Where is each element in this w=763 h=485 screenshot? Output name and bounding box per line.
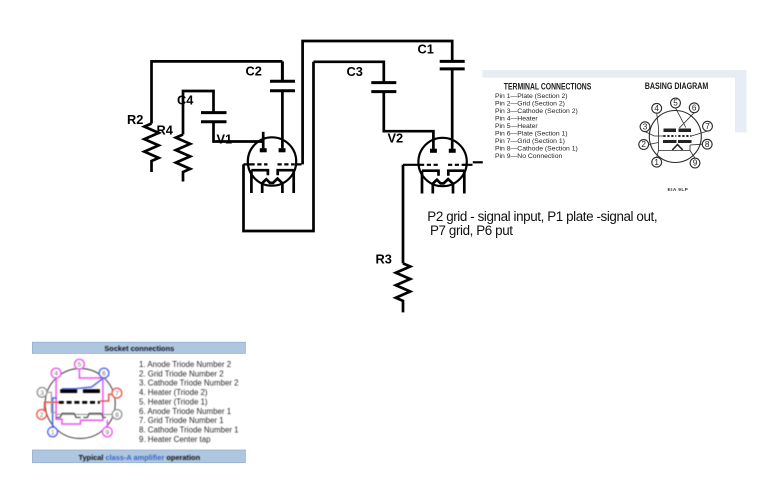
- svg-text:3: 3: [40, 390, 44, 397]
- pin 9: [103, 427, 113, 437]
- svg-text:R3: R3: [376, 251, 392, 266]
- interior grids (dotted): [663, 135, 691, 137]
- header text: [104, 344, 174, 353]
- V1 heater: [262, 179, 282, 193]
- svg-text:8: 8: [705, 140, 710, 149]
- pin numbers: [641, 99, 710, 168]
- wire: C4 bottom lead to V1 left plate: [214, 122, 264, 142]
- svg-text:Pin 7—Grid (Section 1): Pin 7—Grid (Section 1): [495, 138, 565, 145]
- panel header bar: [32, 342, 245, 353]
- svg-text:7. Grid Triode Number 1: 7. Grid Triode Number 1: [139, 416, 224, 425]
- svg-text:6. Anode Triode Number 1: 6. Anode Triode Number 1: [139, 407, 231, 416]
- V2 grid (dashed): [420, 164, 466, 166]
- triode V1 envelope: [248, 137, 296, 185]
- grid wire pin 7 (red): [100, 394, 113, 401]
- socket diagram: [37, 359, 122, 438]
- wire: V1 left plate lead: [262, 132, 265, 149]
- pin 6: [99, 368, 109, 378]
- envelope circle: [649, 111, 701, 163]
- wire: V1 grid right to top rail and across to C1: [303, 41, 453, 164]
- numbered list: [139, 360, 239, 444]
- svg-text:1: 1: [654, 158, 659, 167]
- resistor R2: [144, 124, 158, 173]
- svg-text:5: 5: [673, 99, 678, 108]
- pin 3: [37, 388, 47, 398]
- anode wire pin 6 (blue): [62, 378, 104, 389]
- svg-text:Pin 2—Grid (Section 2): Pin 2—Grid (Section 2): [495, 101, 565, 108]
- svg-text:C1: C1: [418, 42, 434, 57]
- pin 7 circle: [703, 121, 713, 131]
- pin 8 circle: [702, 139, 712, 149]
- V2 right plate bar: [449, 149, 456, 153]
- interior thin frame: [659, 128, 691, 151]
- cathode wire pin 8 (gray): [57, 413, 113, 415]
- anode wire pin 1 (blue): [53, 398, 57, 427]
- svg-text:Socket connections: Socket connections: [104, 344, 174, 353]
- basing diagram: [639, 98, 713, 168]
- svg-text:TERMINAL CONNECTIONS: TERMINAL CONNECTIONS: [504, 82, 592, 92]
- resistor R3: [396, 263, 410, 312]
- svg-text:8: 8: [115, 412, 119, 419]
- heater wire pin 9 (magenta): [106, 420, 108, 427]
- svg-text:V1: V1: [217, 132, 233, 147]
- pin 3 circle: [640, 122, 650, 132]
- heater V: [672, 145, 682, 151]
- plate bar left: [60, 389, 77, 393]
- svg-text:Pin 3—Cathode (Section 2): Pin 3—Cathode (Section 2): [495, 108, 578, 115]
- V1 left cathode: [251, 170, 268, 193]
- panel footer bar: [32, 450, 245, 463]
- wire: V2 grid left lead down to R3: [402, 165, 405, 264]
- pin 6 circle: [689, 103, 699, 113]
- capacitor C3: [371, 83, 396, 92]
- svg-text:C4: C4: [177, 93, 194, 108]
- svg-text:2. Grid Triode Number 2: 2. Grid Triode Number 2: [139, 369, 224, 378]
- svg-text:Pin 1—Plate (Section 2): Pin 1—Plate (Section 2): [495, 93, 568, 100]
- svg-text:P7 grid, P6 put: P7 grid, P6 put: [430, 223, 513, 238]
- svg-text:Pin 6—Plate (Section 1): Pin 6—Plate (Section 1): [495, 130, 568, 137]
- svg-text:V2: V2: [388, 131, 404, 146]
- heading BASING DIAGRAM: [645, 81, 709, 91]
- svg-text:Pin 9—No Connection: Pin 9—No Connection: [495, 153, 562, 160]
- svg-text:4. Heater (Triode 2): 4. Heater (Triode 2): [139, 388, 208, 397]
- svg-text:3. Cathode Triode Number 2: 3. Cathode Triode Number 2: [139, 379, 239, 388]
- wire: R2 top lead up and across to C2: [152, 61, 283, 123]
- svg-text:1: 1: [51, 429, 55, 436]
- footer text: [78, 453, 200, 462]
- pin 4: [51, 368, 61, 378]
- pin 9 circle: [690, 158, 700, 168]
- svg-text:C2: C2: [246, 63, 262, 78]
- heater wire pin 5 (magenta): [79, 369, 103, 420]
- plate bar right: [83, 389, 100, 393]
- wire: C3 top rail: [314, 62, 384, 83]
- cathode right: [83, 413, 106, 417]
- V1 right cathode: [278, 170, 294, 193]
- svg-text:7: 7: [115, 391, 119, 398]
- V2 left plate bar: [430, 149, 437, 153]
- V2 right cathode: [448, 171, 464, 194]
- wire: R4 top lead up and over to C4: [183, 91, 214, 135]
- capacitor C4: [201, 113, 227, 122]
- triode V2 envelope: [418, 138, 466, 186]
- wire: C1 bottom lead down to V2 right plate: [451, 69, 454, 149]
- svg-text:Pin 8—Cathode (Section 1): Pin 8—Cathode (Section 1): [495, 145, 578, 152]
- svg-text:6: 6: [102, 371, 106, 378]
- svg-text:Pin 5—Heater: Pin 5—Heater: [495, 123, 538, 130]
- pin 1: [48, 427, 58, 437]
- pin 2: [37, 410, 47, 420]
- capacitor C2: [270, 61, 295, 90]
- svg-text:BASING DIAGRAM: BASING DIAGRAM: [645, 81, 709, 91]
- socket envelope: [45, 369, 115, 439]
- svg-text:P2 grid - signal input, P1 pla: P2 grid - signal input, P1 plate -signal…: [427, 209, 657, 224]
- pin connection lines: [645, 108, 708, 158]
- heater wire pin 4 (magenta): [56, 378, 80, 424]
- svg-text:9: 9: [106, 429, 110, 436]
- cathode wire pin 3 (gray): [47, 392, 57, 412]
- V2 heater: [433, 179, 453, 193]
- svg-text:R2: R2: [127, 112, 143, 127]
- V2 grid right isolated dash: [473, 161, 483, 163]
- svg-text:EIA 9LP: EIA 9LP: [668, 187, 689, 193]
- cathode left: [56, 413, 81, 417]
- pin 5 circle: [671, 98, 681, 108]
- svg-text:4: 4: [654, 104, 659, 113]
- svg-text:1. Anode Triode Number 2: 1. Anode Triode Number 2: [139, 360, 231, 369]
- svg-text:7: 7: [705, 122, 710, 131]
- svg-text:R4: R4: [157, 123, 174, 138]
- scan shading band top: [482, 70, 746, 78]
- svg-text:3: 3: [643, 122, 648, 131]
- svg-text:9: 9: [693, 159, 698, 168]
- svg-text:8. Cathode Triode Number 1: 8. Cathode Triode Number 1: [139, 426, 239, 435]
- svg-text:C3: C3: [347, 64, 363, 79]
- svg-text:6: 6: [692, 104, 697, 113]
- wire: C2 bottom lead down to V1 right plate: [281, 91, 284, 149]
- pin list: [495, 93, 578, 160]
- pin 8: [112, 410, 122, 420]
- panel body: [32, 342, 245, 463]
- pin 4 circle: [652, 103, 662, 113]
- svg-text:4: 4: [54, 371, 58, 378]
- wire: C3 bottom lead down and right to V2 left plate: [384, 92, 434, 149]
- pin 2 circle: [639, 140, 649, 150]
- svg-text:Pin 4—Heater: Pin 4—Heater: [495, 116, 538, 123]
- V1 right plate bar: [279, 148, 286, 152]
- grid dashes: [59, 401, 100, 404]
- svg-text:9. Heater Center tap: 9. Heater Center tap: [139, 435, 211, 444]
- scan shading band right strip: [735, 70, 747, 132]
- svg-text:Typical class-A amplifier oper: Typical class-A amplifier operation: [78, 453, 200, 462]
- V1 left plate bar: [260, 148, 267, 152]
- svg-text:2: 2: [641, 140, 646, 149]
- V2 left cathode: [422, 171, 439, 194]
- pin 7: [112, 388, 122, 398]
- capacitor C1: [440, 61, 465, 69]
- svg-text:5: 5: [78, 362, 82, 369]
- interior plates: [663, 129, 692, 144]
- pin 1 circle: [652, 157, 662, 167]
- svg-text:2: 2: [40, 412, 44, 419]
- pin 5: [75, 359, 85, 369]
- grid wire pin 2 (red): [44, 402, 58, 410]
- wire: V1 grid left lead down, across, up to C3 net: [244, 62, 314, 231]
- resistor R4: [176, 135, 190, 182]
- heading TERMINAL CONNECTIONS: [504, 82, 592, 92]
- V1 grid (dashed): [251, 163, 295, 165]
- svg-text:5. Heater (Triode 1): 5. Heater (Triode 1): [139, 397, 208, 406]
